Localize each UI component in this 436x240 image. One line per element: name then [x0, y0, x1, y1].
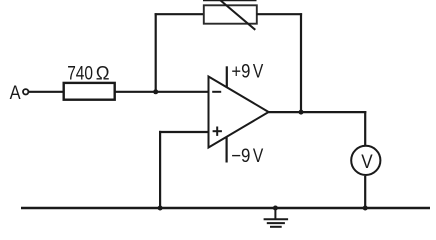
svg-text:−9: −9 — [231, 145, 250, 167]
svg-text:Ω: Ω — [96, 63, 110, 85]
junction dot inverting node — [153, 89, 158, 94]
wire feedback top right — [257, 13, 303, 15]
svg-text:+9: +9 — [231, 60, 250, 82]
wire non-inverting input vertical — [159, 131, 161, 208]
svg-text:V: V — [253, 60, 263, 82]
wire feedback right vertical — [300, 13, 302, 112]
op-amp U1 — [209, 77, 269, 148]
junction dot ground stub — [273, 206, 278, 211]
op-amp negative supply pin — [226, 137, 228, 163]
wire feedback left vertical — [155, 13, 157, 93]
wire voltmeter to ground rail — [364, 176, 366, 208]
ground stub wire — [274, 208, 276, 219]
wire R1 to op-amp inverting input — [115, 91, 209, 93]
junction dot output node — [299, 110, 304, 115]
wire non-inverting input horizontal — [159, 131, 209, 133]
op-amp inverting input minus sign — [212, 91, 221, 93]
svg-text:A: A — [10, 82, 21, 104]
wire op-amp output — [269, 111, 367, 113]
junction dot non-inverting to rail — [158, 206, 163, 211]
junction dot voltmeter-rail — [363, 206, 368, 211]
variable resistor diagonal — [220, 0, 255, 30]
wire feedback top left — [155, 13, 204, 15]
wire A to R1 — [29, 91, 64, 93]
terminal A (open circle) — [23, 89, 28, 94]
op-amp non-inverting input plus sign — [213, 127, 222, 136]
op-amp positive supply pin — [226, 66, 228, 87]
svg-text:740: 740 — [67, 63, 93, 85]
voltmeter V — [351, 146, 380, 175]
wire output down to voltmeter — [364, 111, 366, 145]
ground rail wire — [21, 207, 430, 209]
cropped line above feedback resistor — [203, 0, 257, 1]
svg-text:V: V — [361, 151, 372, 173]
resistor R2 (feedback, variable) — [204, 5, 257, 23]
resistor R1 — [64, 83, 115, 100]
ground symbol — [264, 219, 289, 227]
svg-text:V: V — [253, 145, 263, 167]
